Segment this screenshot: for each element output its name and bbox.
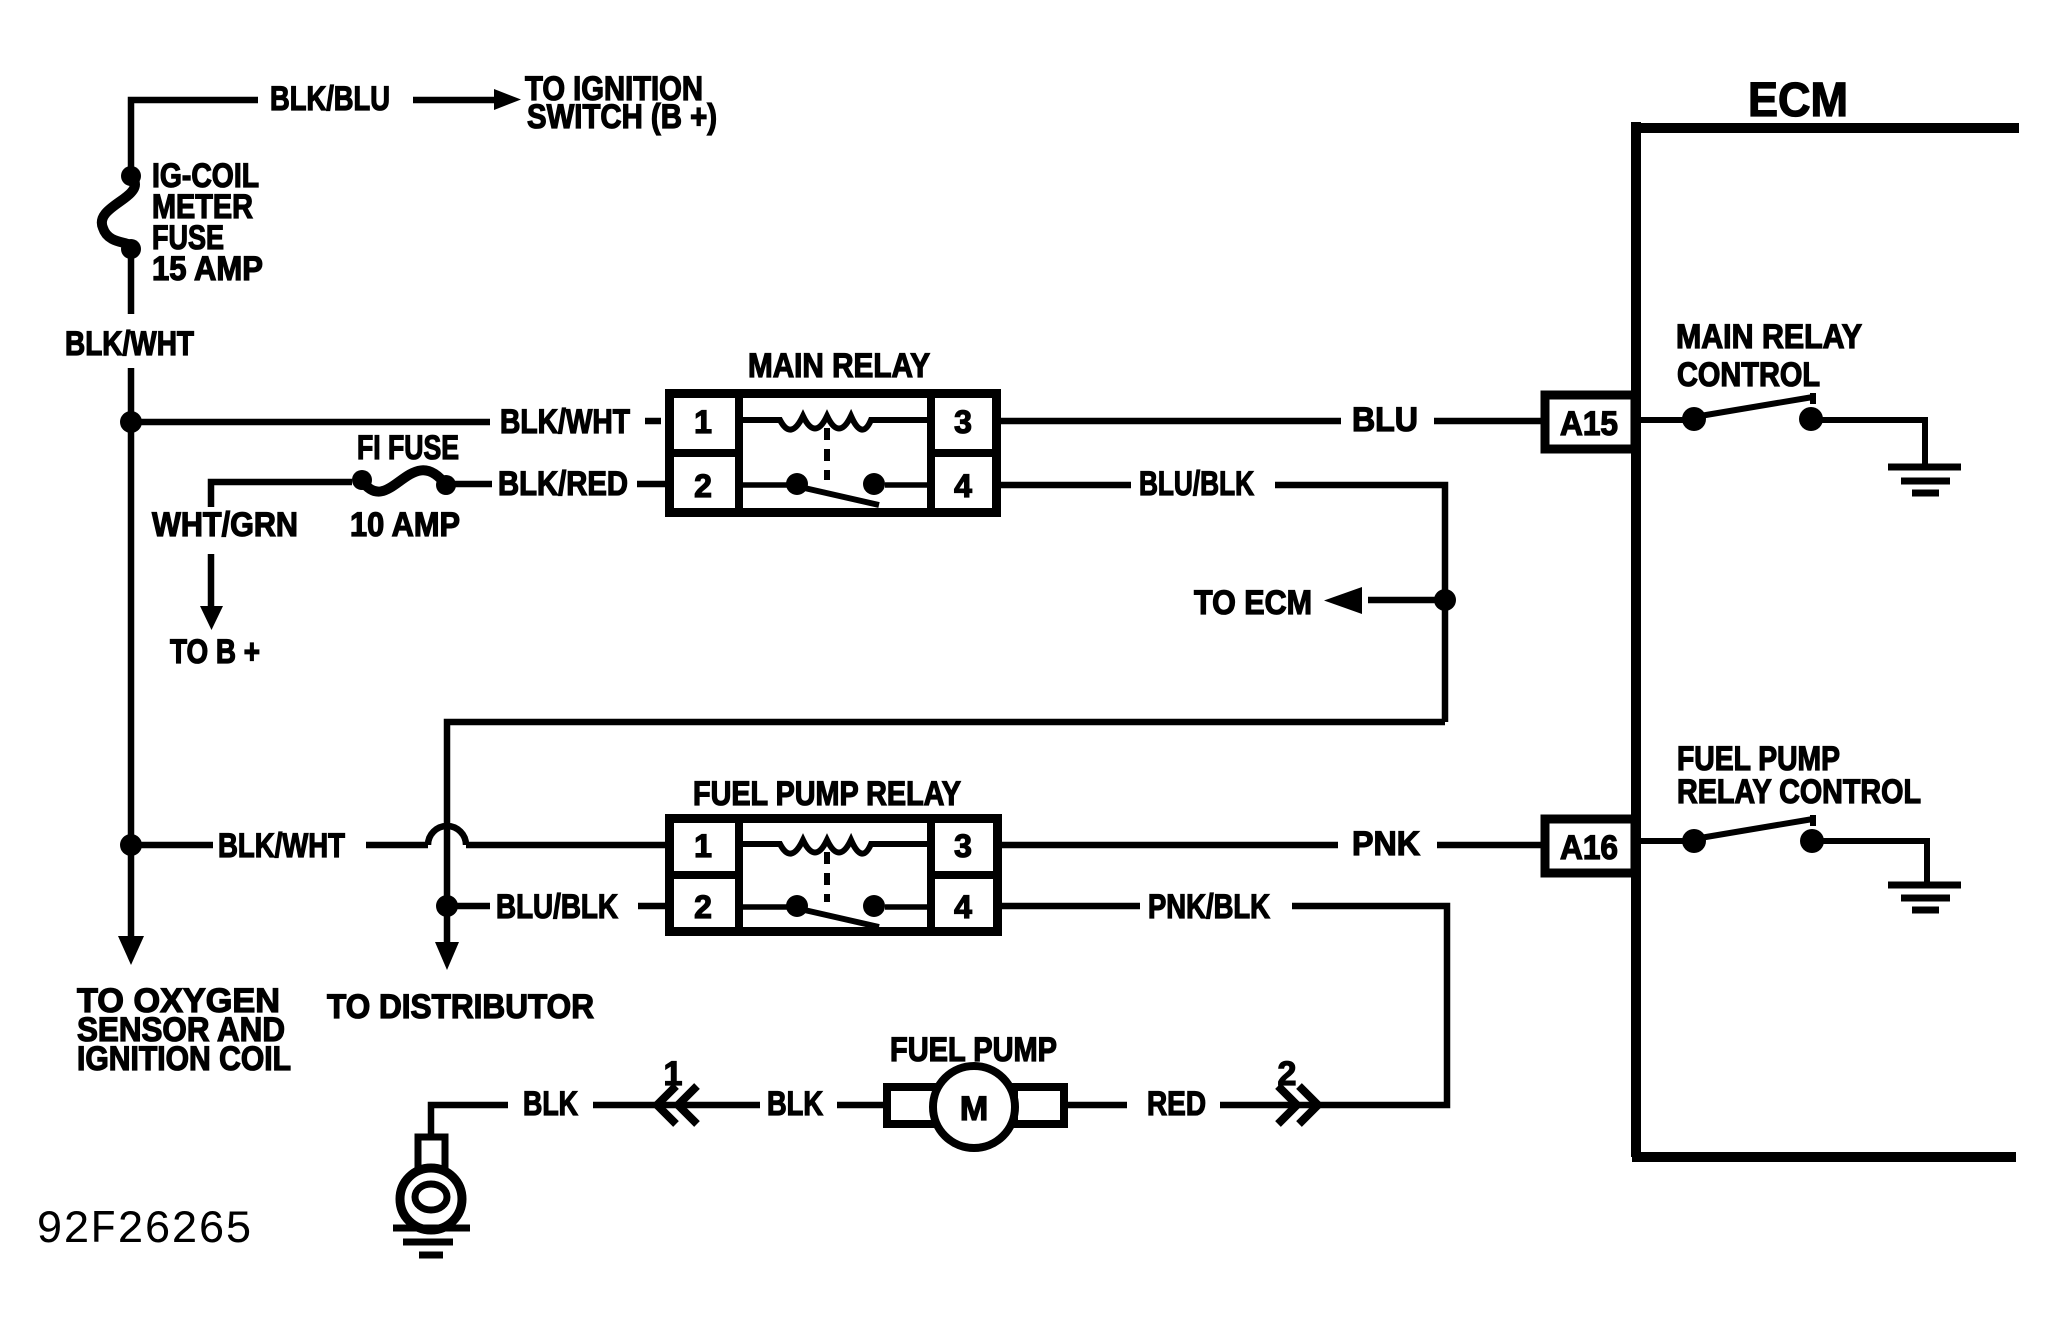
svg-text:PNK: PNK [1352,825,1420,863]
fuse F1 terminal dots [118,89,1456,970]
svg-text:A15: A15 [1560,405,1618,443]
svg-text:FUEL PUMP RELAY: FUEL PUMP RELAY [693,775,961,813]
svg-text:BLK/BLU: BLK/BLU [270,80,390,118]
arrowhead to oxygen sensor [118,936,144,965]
wire PNK fp relay pin3 to label [1002,842,1338,849]
svg-text:BLK/WHT: BLK/WHT [500,403,630,441]
relay MAIN RELAY contact dots [786,473,885,495]
wire BLU/BLK from main relay pin 4 [1001,482,1131,489]
ECM main relay control switch [1641,393,1961,493]
svg-text:FUEL PUMP: FUEL PUMP [890,1031,1057,1069]
wire hop to fuel pump relay pin 1 [466,842,665,849]
wire BLK to connector 1 [593,1102,655,1109]
wire junction to main relay pin 1 [131,419,490,426]
wire PNK label to A16 [1437,842,1541,849]
wire BLK to motor [837,1102,887,1109]
svg-text:1: 1 [694,404,712,440]
svg-text:ECM: ECM [1748,74,1848,127]
arrow to B+ shaft [208,554,215,610]
junction node BLU/BLK fp pin2 [436,895,458,917]
svg-text:BLK/WHT: BLK/WHT [65,325,194,363]
wire fuse to BLK/RED label [455,481,492,488]
fuse F2 terminal dots [352,470,372,490]
svg-text:TO B +: TO B + [170,633,260,671]
fuel pump motor M1 [887,1066,1064,1148]
ground G1 (main relay control) [1888,464,1961,471]
svg-text:BLK/WHT: BLK/WHT [218,827,345,865]
ECM fuel pump relay control contact dots [1682,829,1824,853]
wire hop over vertical [428,826,466,845]
svg-text:BLU/BLK: BLU/BLK [496,888,618,926]
wire PNK/BLK from fp relay pin 4 [1002,903,1140,910]
ground G2 (fuel pump relay control) [1888,882,1961,889]
wire BLK/WHT lower feed to label [131,842,213,849]
svg-text:15 AMP: 15 AMP [152,250,263,288]
svg-text:FI FUSE: FI FUSE [357,429,459,467]
relay FUEL PUMP RELAY contact dots [786,895,885,917]
svg-text:2: 2 [694,468,712,504]
relay MAIN RELAY coil [739,416,931,430]
svg-text:4: 4 [954,468,972,504]
svg-text:TO ECM: TO ECM [1194,584,1312,622]
arrowhead to B+ [200,606,223,630]
wire TO ECM branch [1368,597,1445,604]
relay MAIN RELAY switch [739,482,931,488]
wire BLK/WHT vertical trunk [128,251,135,314]
svg-text:10 AMP: 10 AMP [350,506,460,544]
svg-text:4: 4 [954,889,972,925]
svg-text:BLU/BLK: BLU/BLK [1139,465,1254,503]
ECM fuel pump relay control switch [1641,815,1961,910]
wire RED to connector 2 [1220,1102,1316,1109]
svg-text:M: M [960,1090,988,1128]
svg-text:IGNITION COIL: IGNITION COIL [77,1040,291,1078]
arrowhead to distributor [435,942,459,970]
relay FUEL PUMP RELAY dashed actuator link [824,852,830,902]
svg-text:BLK: BLK [767,1085,823,1123]
svg-text:WHT/GRN: WHT/GRN [152,506,298,544]
ECM enclosure [1632,122,2019,1157]
svg-text:BLU: BLU [1352,401,1418,439]
wire BLU main relay pin3 to label [1001,418,1341,425]
wire BLU/BLK junction to label (fp pin2) [447,903,490,910]
terminal A16 [1545,819,1635,873]
wire BLK/WHT label to hop [366,842,428,849]
svg-text:3: 3 [954,828,972,864]
junction node TO ECM [1434,589,1456,611]
svg-text:RED: RED [1147,1085,1206,1123]
wire battery feed top corner [131,100,258,172]
svg-text:BLK: BLK [523,1085,578,1123]
ground G3 grommet eyelet [400,1137,462,1230]
relay MAIN RELAY dashed actuator link [824,428,830,480]
connector 2 chevrons [1278,1086,1297,1124]
wire wrap-around to left and down [447,722,1445,944]
wire motor to RED [1066,1102,1127,1109]
ECM main relay control contact dots [1682,407,1823,431]
connector 1 chevrons [657,1086,1318,1124]
svg-text:1: 1 [694,828,712,864]
wire BLU label to A15 [1434,418,1541,425]
ground G3 lines [393,1228,470,1255]
svg-text:CONTROL: CONTROL [1677,356,1820,394]
svg-text:BLK/RED: BLK/RED [498,465,628,503]
wire BLU/BLK label to corner and down [1275,485,1445,722]
svg-text:MAIN RELAY: MAIN RELAY [748,347,930,385]
relay FUEL PUMP RELAY coil [739,840,931,854]
fuse F1 IG-COIL METER FUSE body [102,176,135,249]
svg-text:PNK/BLK: PNK/BLK [1148,888,1270,926]
fuse F2 FI FUSE body [362,470,446,491]
svg-text:RELAY CONTROL: RELAY CONTROL [1677,773,1921,811]
svg-text:1: 1 [664,1055,683,1093]
svg-text:MAIN RELAY: MAIN RELAY [1676,318,1862,356]
svg-text:2: 2 [1278,1055,1297,1093]
wire fuel pump ground stub [431,1105,508,1137]
svg-text:SWITCH (B +): SWITCH (B +) [527,98,717,136]
svg-text:3: 3 [954,404,972,440]
svg-text:92F26265: 92F26265 [36,1204,252,1256]
relay FUEL PUMP RELAY [665,814,1002,936]
wire BLU/BLK label into fp relay pin 2 [638,903,665,910]
relay MAIN RELAY [665,389,1001,517]
wire dash before main relay pin1 [645,418,661,425]
arrowhead to ignition switch [494,89,521,110]
wire into main relay pin 2 [637,481,665,488]
terminal A15 [1545,395,1635,449]
wire connector 1 to BLK [660,1102,760,1109]
relay FUEL PUMP RELAY switch [739,904,931,910]
svg-text:A16: A16 [1560,829,1618,867]
svg-text:TO DISTRIBUTOR: TO DISTRIBUTOR [327,988,594,1026]
wire PNK/BLK label to corner down and to connector 2 [1292,906,1447,1105]
junction node fuel pump relay feed [120,834,142,856]
svg-text:2: 2 [694,889,712,925]
junction node main relay feed [120,411,142,433]
wire FI fuse branch with stub [211,482,352,507]
arrowhead TO ECM [1324,587,1362,614]
wire arrow to ignition switch shaft [413,97,498,104]
